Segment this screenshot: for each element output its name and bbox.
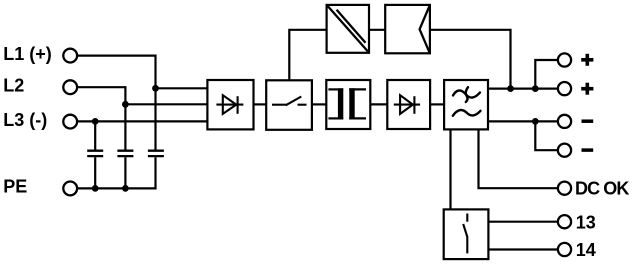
svg-text:L2: L2 [3,75,24,95]
svg-text:L3 (-): L3 (-) [3,110,47,130]
svg-text:DC OK: DC OK [575,178,629,198]
svg-text:PE: PE [3,177,27,197]
svg-text:14: 14 [576,240,596,260]
svg-text:L1 (+): L1 (+) [3,44,52,64]
svg-text:13: 13 [576,213,596,233]
